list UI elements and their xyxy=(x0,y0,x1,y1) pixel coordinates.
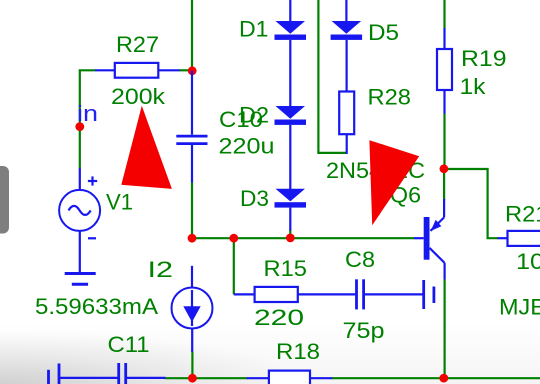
svg-text:5.59633mA: 5.59633mA xyxy=(35,294,158,319)
svg-text:75p: 75p xyxy=(343,318,385,343)
wire xyxy=(191,0,193,71)
svg-text:1k: 1k xyxy=(460,74,487,99)
svg-text:D1: D1 xyxy=(239,17,269,42)
wire xyxy=(179,69,193,71)
current source I2 xyxy=(35,257,213,352)
junction xyxy=(286,234,295,243)
junction xyxy=(188,234,197,243)
svg-text:D3: D3 xyxy=(240,186,269,211)
junction xyxy=(229,234,238,243)
wire xyxy=(332,377,540,379)
diode D5 xyxy=(331,0,399,92)
resistor R21 xyxy=(498,202,540,275)
diode D2 xyxy=(239,103,306,190)
svg-text:D2: D2 xyxy=(239,103,269,128)
wire xyxy=(80,70,95,168)
svg-text:200k: 200k xyxy=(111,84,166,109)
diode D1 xyxy=(239,0,306,107)
svg-text:220: 220 xyxy=(254,305,304,330)
svg-text:R27: R27 xyxy=(116,32,159,57)
wire xyxy=(289,230,291,239)
svg-text:R19: R19 xyxy=(461,46,507,71)
svg-text:C8: C8 xyxy=(345,247,375,272)
resistor R19 xyxy=(437,28,507,114)
svg-text:C11: C11 xyxy=(108,332,150,357)
svg-text:R15: R15 xyxy=(264,256,308,281)
capacitor C12 xyxy=(49,364,60,384)
svg-text:R21: R21 xyxy=(505,202,540,227)
junction xyxy=(440,164,449,173)
svg-text:D5: D5 xyxy=(368,20,399,45)
svg-text:MJE15031: MJE15031 xyxy=(499,295,540,320)
svg-text:V1: V1 xyxy=(106,190,133,215)
source V1 xyxy=(59,168,133,274)
svg-text:220u: 220u xyxy=(219,134,275,159)
capacitor C9 xyxy=(424,280,434,309)
svg-text:R28: R28 xyxy=(368,85,412,110)
wire xyxy=(317,152,347,154)
ground xyxy=(65,274,96,285)
wire xyxy=(192,237,415,239)
junction xyxy=(439,374,448,383)
junction xyxy=(188,374,197,383)
wire xyxy=(443,0,445,28)
probe arrow 1 xyxy=(121,106,172,189)
svg-text:I2: I2 xyxy=(148,257,174,282)
wire xyxy=(191,182,193,238)
probe arrow 2 xyxy=(369,140,419,225)
svg-text:100: 100 xyxy=(516,249,540,274)
diode D3 xyxy=(240,186,306,231)
junction xyxy=(75,122,84,131)
svg-text:R18: R18 xyxy=(276,339,320,364)
junction xyxy=(188,66,197,75)
capacitor C10 xyxy=(176,71,274,183)
wire xyxy=(317,0,319,153)
transistor Q6 xyxy=(390,183,445,280)
wire xyxy=(443,169,445,200)
wire xyxy=(443,114,445,170)
wire xyxy=(233,238,235,294)
wire xyxy=(191,352,193,378)
resistor R28 xyxy=(339,85,411,154)
capacitor C8 xyxy=(343,247,423,343)
resistor R27 xyxy=(95,32,180,109)
resistor R15 xyxy=(234,256,356,330)
wire xyxy=(444,280,446,379)
capacitor C11 xyxy=(60,332,166,384)
wire xyxy=(165,377,248,379)
resistor R18 xyxy=(247,339,333,384)
wire xyxy=(444,169,498,238)
